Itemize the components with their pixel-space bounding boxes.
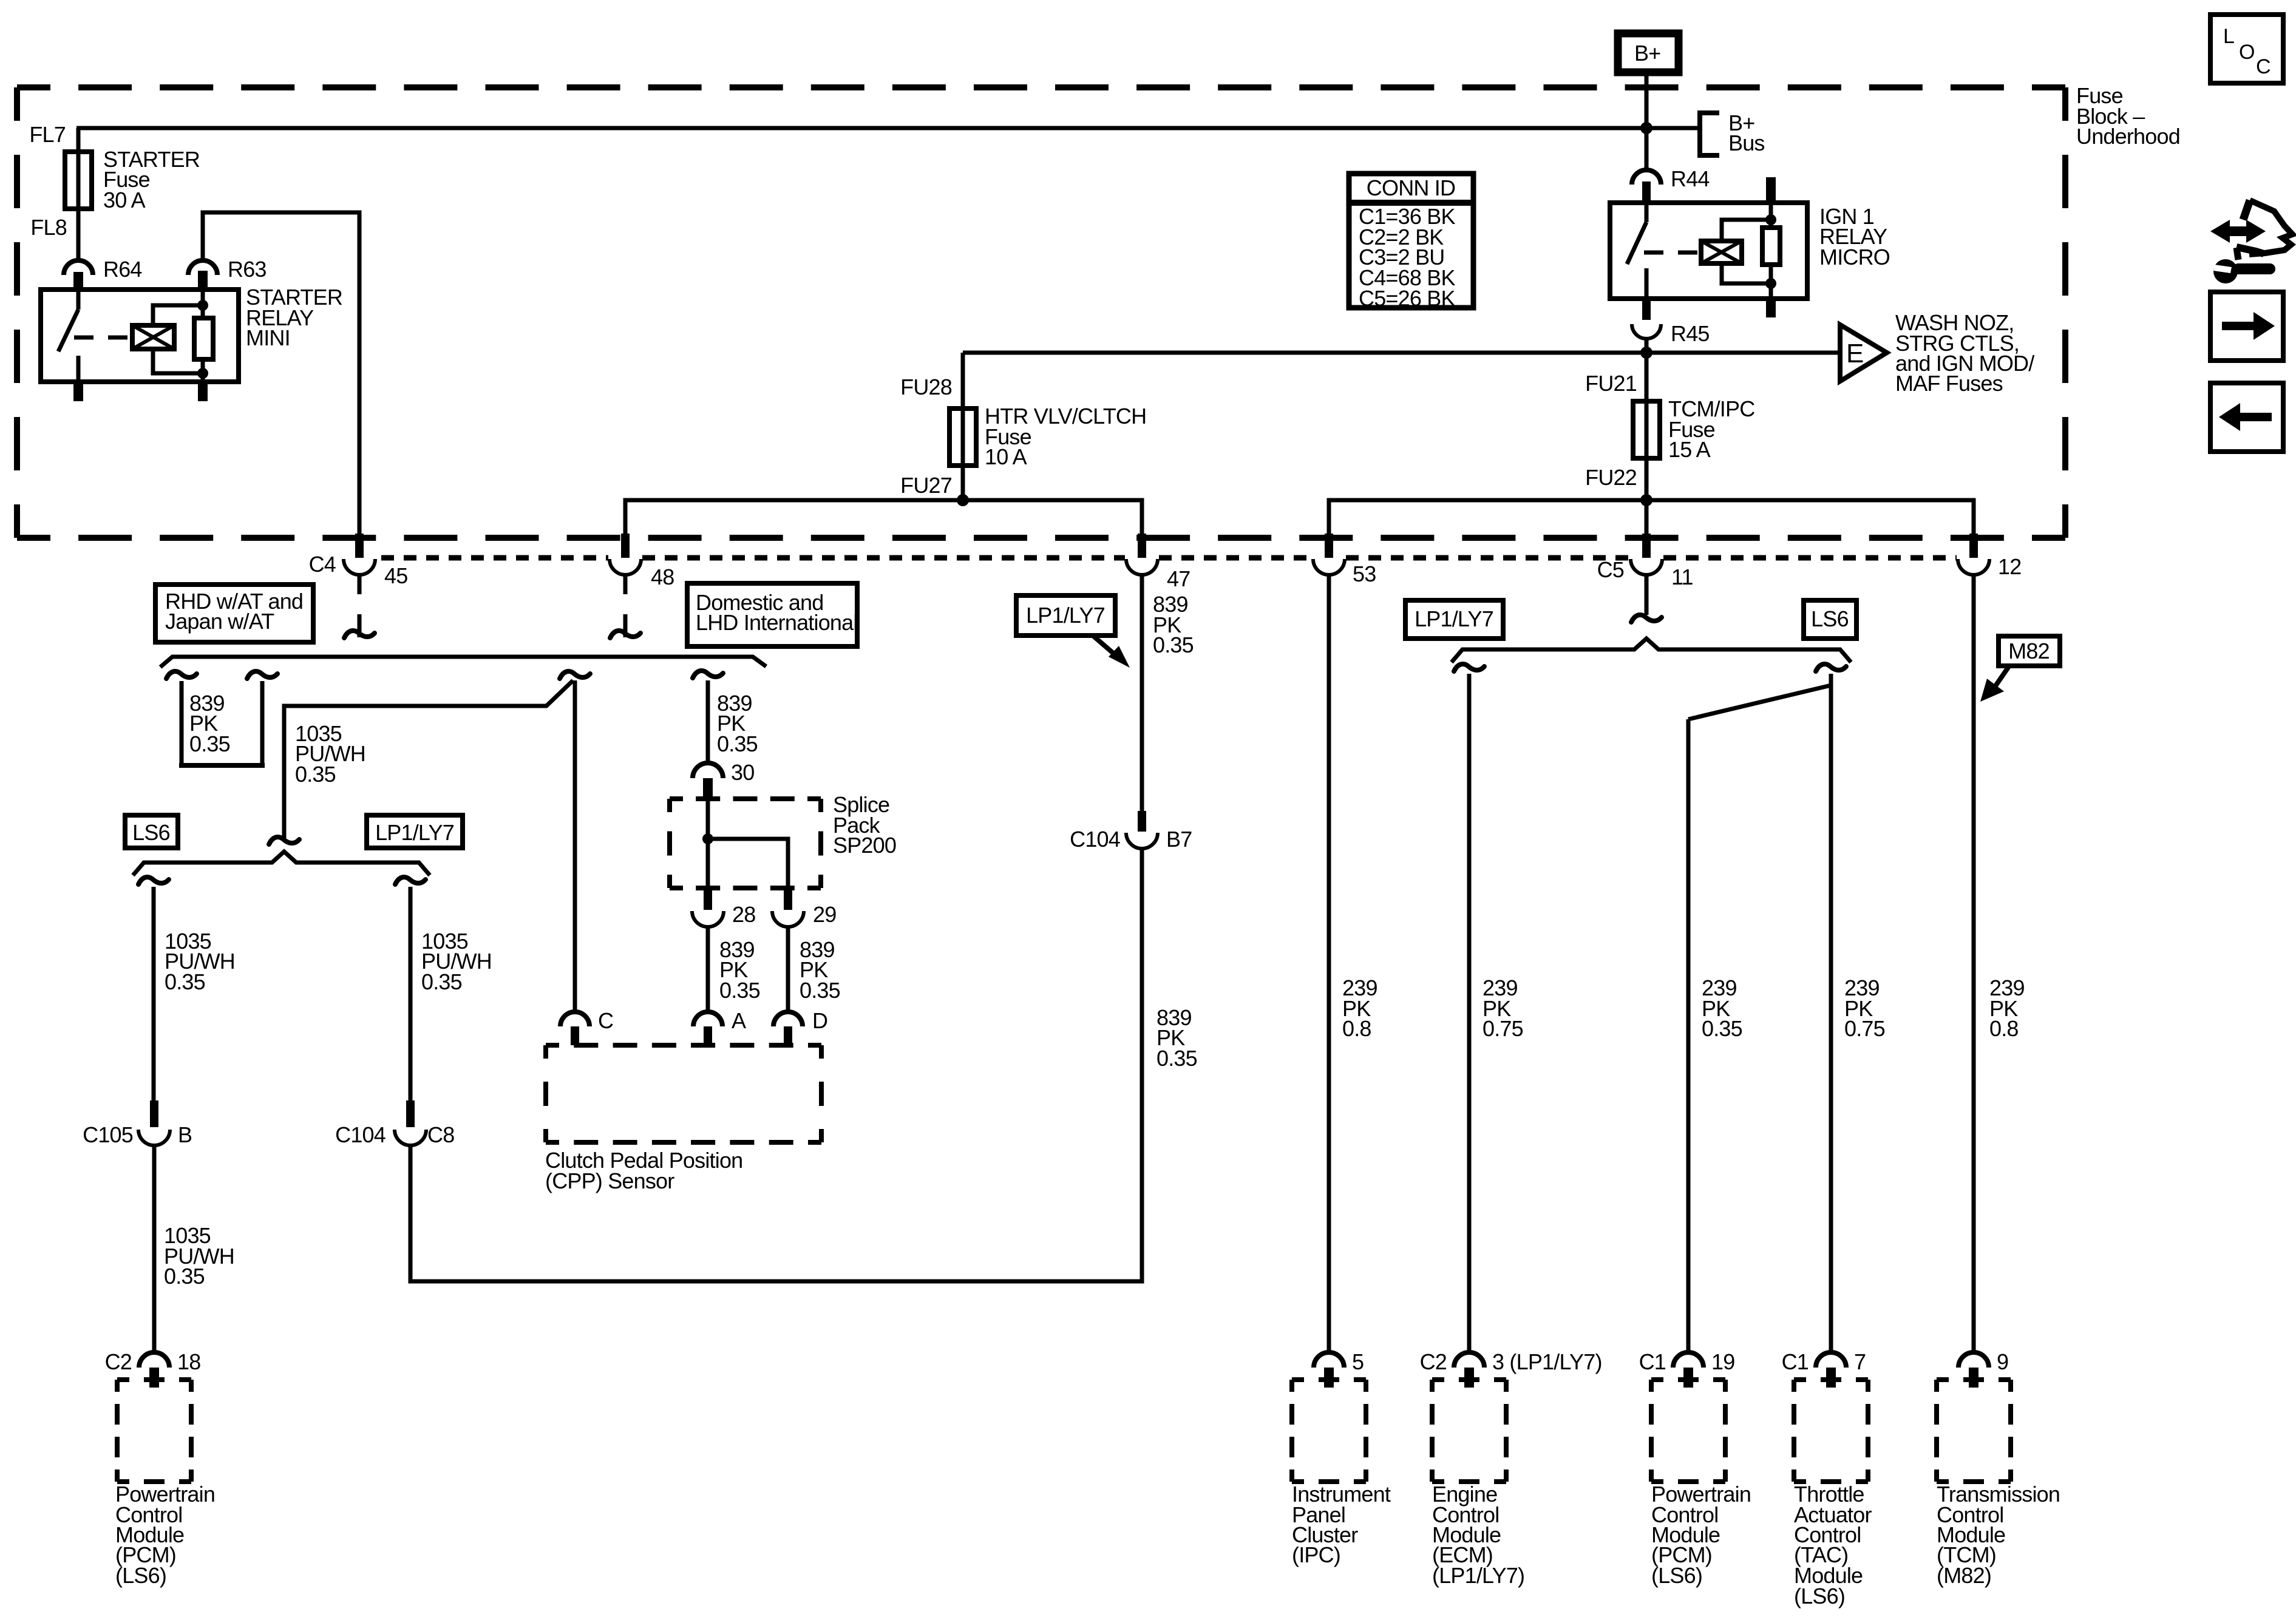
label C8 bbox=[427, 1122, 454, 1147]
svg-text:C: C bbox=[2256, 55, 2271, 78]
svg-text:12: 12 bbox=[1998, 554, 2021, 579]
wire LS6 branch hook bbox=[138, 877, 169, 1100]
module ECM dashed box bbox=[1432, 1380, 1506, 1482]
svg-text:FU28: FU28 bbox=[900, 375, 952, 399]
label IGN 1 RELAY MICRO bbox=[1819, 204, 1890, 269]
label circuit 839 PK 0.35 (B7) bbox=[1156, 1005, 1197, 1071]
svg-text:5: 5 bbox=[1352, 1349, 1364, 1374]
label circuit 239 PK 0.35 (PCM) bbox=[1702, 975, 1742, 1041]
off-page arrow E bbox=[1840, 325, 1887, 381]
fuse FL7/FL8 STARTER 30A bbox=[65, 152, 92, 209]
CPP sensor pin D bbox=[773, 1012, 803, 1045]
svg-text:0.35: 0.35 bbox=[295, 762, 336, 787]
option break under pin 11 bbox=[1631, 615, 1662, 622]
label B bbox=[178, 1122, 192, 1147]
module PCM LS6 (left) label bbox=[115, 1482, 215, 1588]
wire ECM branch hook bbox=[1454, 664, 1484, 1354]
wire FU28 drop through fuse to bus bbox=[961, 353, 965, 500]
svg-text:B7: B7 bbox=[1166, 827, 1192, 852]
module ECM connector bbox=[1420, 1349, 1602, 1388]
svg-text:C5=26 BK: C5=26 BK bbox=[1359, 286, 1455, 311]
option merge brace 2 bbox=[133, 852, 430, 875]
svg-text:(IPC): (IPC) bbox=[1292, 1542, 1340, 1567]
module IPC label bbox=[1292, 1482, 1391, 1567]
node IGN coil-resistor bottom bbox=[1765, 278, 1776, 289]
node splice SP200 bbox=[702, 833, 713, 844]
wire 839 PK loop bottom bbox=[179, 763, 265, 768]
wire 839 PK loop left hook bbox=[166, 671, 197, 765]
label FU27 bbox=[900, 473, 952, 498]
connector 30 bbox=[693, 763, 723, 799]
label circuit 1035 PU/WH 0.35 (to PCM) bbox=[164, 1223, 234, 1289]
connector C4 pin 45 bbox=[344, 534, 375, 594]
svg-text:LP1/LY7: LP1/LY7 bbox=[1026, 603, 1105, 628]
option box RHD w/AT and Japan w/AT bbox=[155, 585, 313, 642]
svg-text:0.35: 0.35 bbox=[165, 969, 205, 994]
splice SP200 internal wires bbox=[708, 799, 788, 888]
svg-text:19: 19 bbox=[1711, 1349, 1734, 1374]
fuse FU21/FU22 TCM/IPC 15A bbox=[1633, 401, 1660, 458]
module TCM connector bbox=[1958, 1349, 2008, 1388]
connector C5 pin 11 bbox=[1631, 534, 1662, 615]
IGN relay actuation dashed link bbox=[1644, 251, 1699, 255]
label B+ Bus bbox=[1728, 110, 1765, 155]
IGN relay switch contact bbox=[1627, 203, 1646, 299]
label B7 bbox=[1166, 827, 1192, 852]
svg-text:M82: M82 bbox=[2008, 639, 2050, 663]
label circuit 239 PK 0.8 (IPC) bbox=[1342, 975, 1377, 1041]
svg-text:0.35: 0.35 bbox=[1153, 632, 1194, 657]
option break under pin 45 bbox=[344, 614, 375, 638]
CPP sensor dashed box bbox=[546, 1045, 821, 1142]
svg-text:R44: R44 bbox=[1671, 166, 1710, 191]
relay coil K1 bbox=[132, 325, 174, 349]
icon arrow back box bbox=[2210, 383, 2283, 452]
label STARTER Fuse 30 A bbox=[103, 147, 200, 212]
node FU22 bus junction bbox=[1640, 494, 1652, 506]
option box LP1/LY7 (right) bbox=[1405, 600, 1503, 639]
svg-text:3 (LP1/LY7): 3 (LP1/LY7) bbox=[1492, 1349, 1602, 1374]
module PCM dashed box bbox=[1651, 1380, 1725, 1482]
svg-text:0.35: 0.35 bbox=[421, 969, 462, 994]
label Clutch Pedal Position (CPP) Sensor bbox=[545, 1148, 742, 1193]
wire C8 to B7 loop bbox=[410, 849, 1142, 1281]
wire FL7 horizontal bus bbox=[76, 126, 1646, 131]
wire 839 PK loop right hook bbox=[247, 671, 277, 765]
label circuit 1035 PU/WH 0.35 (LP1/LY7) bbox=[421, 929, 492, 994]
connector C4 pin 48 bbox=[610, 534, 641, 594]
option box LP1/LY7 (pin 47) bbox=[1016, 595, 1115, 636]
label R45 bbox=[1671, 321, 1710, 346]
svg-text:0.35: 0.35 bbox=[189, 731, 230, 756]
CPP sensor pin A bbox=[693, 1012, 722, 1045]
label Splice Pack SP200 bbox=[833, 792, 896, 858]
svg-text:C8: C8 bbox=[427, 1122, 454, 1147]
label FU21 bbox=[1585, 371, 1637, 396]
wire B+ down to R44 bbox=[1645, 76, 1649, 171]
option arrow LP1/LY7 to wire bbox=[1093, 636, 1130, 668]
connector C104 pin C8 bbox=[395, 1100, 426, 1145]
wire LS6 branch hook (TAC) bbox=[1816, 664, 1846, 1354]
svg-text:C4: C4 bbox=[309, 552, 336, 577]
svg-text:C104: C104 bbox=[335, 1122, 385, 1147]
label circuit 239 PK 0.75 (TAC) bbox=[1844, 975, 1885, 1041]
svg-text:C2: C2 bbox=[105, 1349, 132, 1374]
svg-text:15 A: 15 A bbox=[1668, 437, 1711, 462]
option merge brace 3 bbox=[1452, 639, 1851, 662]
node IGN coil-resistor top bbox=[1765, 214, 1776, 225]
IGN relay pin top-right bbox=[1766, 177, 1776, 203]
svg-text:A: A bbox=[732, 1008, 746, 1033]
label C bbox=[598, 1008, 613, 1033]
label STARTER RELAY MINI bbox=[246, 285, 342, 350]
node R45 junction on E-feed bbox=[1640, 347, 1652, 359]
wire pin 11 drop bbox=[1645, 500, 1649, 535]
connector R64 bbox=[64, 260, 93, 290]
wire IGN coil bottom to resistor node bbox=[1722, 263, 1771, 283]
node junction at B+ bus bbox=[1640, 122, 1652, 134]
wire R63 up-over-down to pin 45 bbox=[203, 212, 359, 535]
svg-text:0.35: 0.35 bbox=[800, 978, 840, 1003]
wire LP1/LY7 branch hook bbox=[395, 877, 426, 1100]
svg-text:LS6: LS6 bbox=[1811, 606, 1849, 631]
option box LS6 (left) bbox=[125, 815, 178, 848]
connector R45 bbox=[1632, 324, 1661, 353]
svg-text:MINI: MINI bbox=[246, 325, 290, 350]
svg-text:O: O bbox=[2239, 41, 2255, 64]
svg-text:E: E bbox=[1846, 339, 1864, 368]
svg-text:Bus: Bus bbox=[1728, 131, 1765, 155]
label Fuse Block - Underhood bbox=[2076, 83, 2180, 149]
option box LS6 (right) bbox=[1804, 600, 1856, 639]
label FU22 bbox=[1585, 465, 1637, 490]
label 45 bbox=[384, 563, 407, 588]
svg-text:0.35: 0.35 bbox=[164, 1264, 205, 1289]
svg-text:(LS6): (LS6) bbox=[1651, 1563, 1702, 1588]
fuse block underhood dashed border bbox=[17, 87, 2065, 538]
label circuit 239 PK 0.8 (TCM) bbox=[1989, 975, 2025, 1041]
svg-text:29: 29 bbox=[813, 902, 836, 927]
label 11 bbox=[1671, 564, 1693, 589]
svg-text:Japan w/AT: Japan w/AT bbox=[165, 609, 274, 634]
svg-text:MAF Fuses: MAF Fuses bbox=[1895, 371, 2003, 396]
module IPC dashed box bbox=[1292, 1380, 1366, 1482]
connector C105 pin B bbox=[138, 1100, 170, 1353]
svg-text:(M82): (M82) bbox=[1937, 1563, 1991, 1588]
power symbol B+ box bbox=[1618, 33, 1679, 72]
label FU28 bbox=[900, 375, 952, 399]
wire right fuse output bus bbox=[1329, 500, 1974, 535]
svg-text:10 A: 10 A bbox=[985, 444, 1027, 469]
module PCM label bbox=[1651, 1482, 1751, 1588]
svg-text:LS6: LS6 bbox=[132, 820, 170, 845]
label circuit 1035 PU/WH 0.35 (LS6) bbox=[165, 929, 235, 994]
IGN relay coil bbox=[1701, 241, 1742, 263]
svg-text:FU22: FU22 bbox=[1585, 465, 1637, 490]
option box M82 bbox=[1999, 636, 2060, 666]
splice pack SP200 dashed box bbox=[670, 799, 821, 888]
svg-text:30 A: 30 A bbox=[103, 188, 146, 212]
label FL7 bbox=[29, 122, 66, 147]
connector pass-through dotted line C4/C5 bbox=[381, 555, 1957, 561]
wire hook to 1035 branch bbox=[284, 671, 590, 841]
relay pin bottom-left bbox=[73, 382, 83, 401]
svg-text:C5: C5 bbox=[1597, 557, 1624, 582]
wire FL7 down through fuse to R64 bbox=[76, 128, 81, 262]
label 47 bbox=[1167, 566, 1190, 591]
fuse FU28/FU27 HTR VLV/CLTCH 10A bbox=[949, 408, 976, 466]
relay pin bottom-right bbox=[198, 382, 208, 401]
svg-text:MICRO: MICRO bbox=[1819, 245, 1890, 269]
relay internal resistor bbox=[194, 290, 213, 382]
module PCM connector bbox=[1639, 1349, 1735, 1388]
svg-text:53: 53 bbox=[1353, 561, 1376, 586]
label R64 bbox=[103, 257, 142, 282]
module TAC label bbox=[1794, 1482, 1872, 1609]
label HTR VLV/CLTCH Fuse 10 A bbox=[985, 404, 1146, 469]
icon arrow next box bbox=[2210, 292, 2283, 361]
svg-text:C1: C1 bbox=[1782, 1349, 1809, 1374]
svg-text:(LP1/LY7): (LP1/LY7) bbox=[1432, 1563, 1524, 1588]
icon adjust hand with wrench bbox=[2210, 200, 2292, 283]
module TCM dashed box bbox=[1937, 1380, 2011, 1482]
label D bbox=[812, 1008, 827, 1033]
svg-text:C105: C105 bbox=[83, 1122, 133, 1147]
svg-text:C104: C104 bbox=[1070, 827, 1120, 852]
svg-text:0.35: 0.35 bbox=[717, 731, 758, 756]
splice output pin 28 bbox=[692, 888, 724, 1012]
wire hook down to CPP pin C bbox=[573, 680, 577, 1012]
label R44 bbox=[1671, 166, 1710, 191]
icon LOC box bbox=[2210, 15, 2283, 83]
svg-text:9: 9 bbox=[1997, 1349, 2008, 1374]
IGN relay pin bottom-right bbox=[1766, 299, 1776, 317]
svg-text:(LS6): (LS6) bbox=[115, 1563, 166, 1588]
svg-text:C2: C2 bbox=[1420, 1349, 1447, 1374]
label A bbox=[732, 1008, 746, 1033]
wire diagonal to PCM bbox=[1688, 685, 1831, 1354]
label FL8 bbox=[30, 215, 67, 240]
node coil-resistor top bbox=[197, 300, 208, 311]
label 29 bbox=[813, 902, 836, 927]
wire left fuse output bus bbox=[625, 500, 1142, 535]
connector C5 pin 12 bbox=[1958, 534, 1989, 1354]
IGN 1 relay box bbox=[1610, 203, 1807, 299]
svg-text:Underhood: Underhood bbox=[2076, 124, 2180, 149]
label circuit 839 PK 0.35 (pin A) bbox=[719, 937, 760, 1003]
wire hook to splice pack bbox=[693, 671, 723, 763]
svg-text:7: 7 bbox=[1854, 1349, 1866, 1374]
label 12 bbox=[1998, 554, 2021, 579]
svg-text:C: C bbox=[598, 1008, 613, 1033]
relay switch contact bbox=[58, 290, 78, 382]
module TAC dashed box bbox=[1794, 1380, 1868, 1482]
option merge brace 1 bbox=[160, 657, 766, 667]
connector C104 pin B7 bbox=[1126, 811, 1158, 849]
svg-text:0.35: 0.35 bbox=[719, 978, 760, 1003]
svg-text:45: 45 bbox=[384, 563, 407, 588]
relay actuation dashed link bbox=[74, 336, 130, 340]
svg-text:28: 28 bbox=[732, 902, 755, 927]
label 30 bbox=[731, 760, 754, 785]
connector C5 pin 53 bbox=[1313, 534, 1345, 1354]
IGN relay internal resistor bbox=[1762, 203, 1780, 299]
svg-text:FU21: FU21 bbox=[1585, 371, 1637, 396]
wire stub to B+ Bus bbox=[1646, 126, 1700, 131]
label R63 bbox=[228, 257, 267, 282]
wire E-feed horizontal bbox=[963, 351, 1840, 355]
label circuit 239 PK 0.75 (ECM) bbox=[1483, 975, 1523, 1041]
svg-text:0.35: 0.35 bbox=[1702, 1016, 1742, 1041]
connector R44 bbox=[1632, 170, 1661, 201]
svg-text:FL7: FL7 bbox=[29, 122, 66, 147]
label circuit 839 PK 0.35 (pin 47) bbox=[1153, 592, 1194, 657]
CPP sensor pin C bbox=[560, 1012, 589, 1045]
svg-text:18: 18 bbox=[177, 1349, 200, 1374]
starter relay box bbox=[41, 290, 239, 382]
option break under pin 48 bbox=[610, 614, 640, 638]
option box Domestic and LHD International bbox=[687, 583, 858, 646]
svg-text:47: 47 bbox=[1167, 566, 1190, 591]
B+ Bus tap symbol bbox=[1700, 113, 1719, 155]
label circuit 839 PK 0.35 (to splice) bbox=[717, 691, 758, 756]
module PCM LS6 (left) dashed box bbox=[117, 1380, 191, 1482]
CONN ID table bbox=[1349, 174, 1473, 311]
svg-text:LP1/LY7: LP1/LY7 bbox=[375, 820, 454, 845]
splice output pin 29 bbox=[772, 888, 804, 1012]
svg-text:11: 11 bbox=[1671, 564, 1693, 589]
svg-text:FU27: FU27 bbox=[900, 473, 952, 498]
node coil-resistor bottom bbox=[197, 368, 208, 379]
svg-text:FL8: FL8 bbox=[30, 215, 67, 240]
svg-text:R63: R63 bbox=[228, 257, 267, 282]
node FU27 bus junction bbox=[957, 494, 969, 506]
svg-text:D: D bbox=[812, 1008, 827, 1033]
module IPC connector bbox=[1314, 1349, 1364, 1388]
svg-text:0.8: 0.8 bbox=[1342, 1016, 1371, 1041]
label C104 bbox=[335, 1122, 385, 1147]
label WASH NOZ STRG CTLS and IGN MOD/MAF Fuses bbox=[1895, 310, 2034, 396]
module TAC connector bbox=[1782, 1349, 1866, 1388]
module ECM label bbox=[1432, 1482, 1524, 1588]
svg-text:(LS6): (LS6) bbox=[1794, 1584, 1845, 1609]
svg-text:SP200: SP200 bbox=[833, 833, 896, 858]
svg-text:(CPP) Sensor: (CPP) Sensor bbox=[545, 1168, 674, 1193]
label 48 bbox=[651, 564, 674, 589]
wire coil top to resistor node bbox=[153, 305, 203, 325]
label C4 bbox=[309, 552, 336, 577]
label circuit 839 PK 0.35 (pin D) bbox=[800, 937, 840, 1003]
svg-text:LP1/LY7: LP1/LY7 bbox=[1415, 606, 1493, 631]
label circuit 839 PK 0.35 (loop) bbox=[189, 691, 230, 756]
label C5 bbox=[1597, 557, 1624, 582]
label C105 bbox=[83, 1122, 133, 1147]
svg-text:LHD International: LHD International bbox=[696, 610, 858, 635]
svg-text:48: 48 bbox=[651, 564, 674, 589]
option arrow M82 to wire bbox=[1980, 665, 2010, 702]
relay pin top-right bbox=[198, 271, 208, 290]
svg-text:0.8: 0.8 bbox=[1989, 1016, 2019, 1041]
svg-text:L: L bbox=[2223, 25, 2234, 48]
wire coil bottom to resistor node bbox=[153, 349, 203, 373]
wire R45 through FU21 fuse to bus bbox=[1645, 353, 1649, 500]
label 28 bbox=[732, 902, 755, 927]
connector R63 bbox=[188, 260, 217, 275]
svg-text:0.75: 0.75 bbox=[1483, 1016, 1523, 1041]
svg-text:C1: C1 bbox=[1639, 1349, 1666, 1374]
connector C2 pin 18 (left PCM) bbox=[105, 1349, 201, 1388]
wire IGN coil top to resistor node bbox=[1722, 220, 1771, 241]
option box LP1/LY7 (left) bbox=[367, 815, 463, 848]
svg-text:B: B bbox=[178, 1122, 192, 1147]
svg-text:0.75: 0.75 bbox=[1844, 1016, 1885, 1041]
label C104 (B7) bbox=[1070, 827, 1120, 852]
module TCM label bbox=[1937, 1482, 2060, 1588]
svg-text:B+: B+ bbox=[1634, 41, 1660, 66]
option break on 1035 wire bbox=[269, 837, 299, 844]
svg-text:30: 30 bbox=[731, 760, 754, 785]
svg-text:CONN ID: CONN ID bbox=[1367, 175, 1455, 200]
svg-text:0.35: 0.35 bbox=[1156, 1046, 1197, 1071]
connector C4 pin 47 bbox=[1126, 534, 1158, 811]
svg-text:R45: R45 bbox=[1671, 321, 1710, 346]
label circuit 1035 PU/WH 0.35 (branch) bbox=[295, 721, 365, 787]
label 53 bbox=[1353, 561, 1376, 586]
svg-text:R64: R64 bbox=[103, 257, 142, 282]
label TCM/IPC Fuse 15 A bbox=[1668, 396, 1754, 462]
IGN relay pin bottom-left bbox=[1642, 299, 1651, 320]
